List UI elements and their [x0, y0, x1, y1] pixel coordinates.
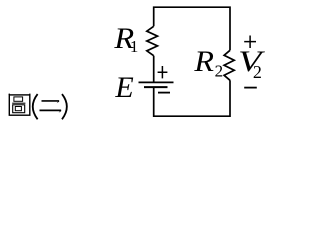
- svg-text:E: E: [114, 71, 133, 104]
- svg-text:1: 1: [130, 37, 139, 56]
- V2 minus sign: [244, 87, 257, 89]
- battery plus sign: [158, 66, 168, 78]
- svg-text:2: 2: [215, 62, 224, 81]
- wire top-left vertical and top wire and right top vertical: [154, 7, 230, 50]
- wire battery to bottom, bottom wire, right bottom vertical: [154, 80, 230, 116]
- wire R1 to battery: [153, 56, 155, 82]
- resistor R2: [224, 50, 234, 80]
- battery minus sign: [158, 92, 170, 94]
- caption open paren: [33, 94, 38, 119]
- svg-text:R: R: [193, 45, 214, 78]
- caption close paren: [62, 94, 67, 119]
- caption glyph 圖 top inner box: [14, 97, 23, 101]
- caption glyph 圖 outer box: [9, 95, 30, 115]
- battery E short plate: [144, 86, 168, 88]
- caption glyph 圖 middle stroke: [12, 102, 25, 104]
- caption glyph 二 top stroke: [42, 100, 60, 102]
- resistor R1: [147, 26, 158, 55]
- caption glyph 圖 bottom inner box: [15, 107, 21, 111]
- caption glyph 圖 bottom outer box: [13, 105, 25, 113]
- svg-text:2: 2: [253, 62, 262, 82]
- caption glyph 二 bottom stroke: [40, 109, 62, 111]
- V2 plus sign: [244, 36, 256, 49]
- battery E long plate: [139, 81, 174, 83]
